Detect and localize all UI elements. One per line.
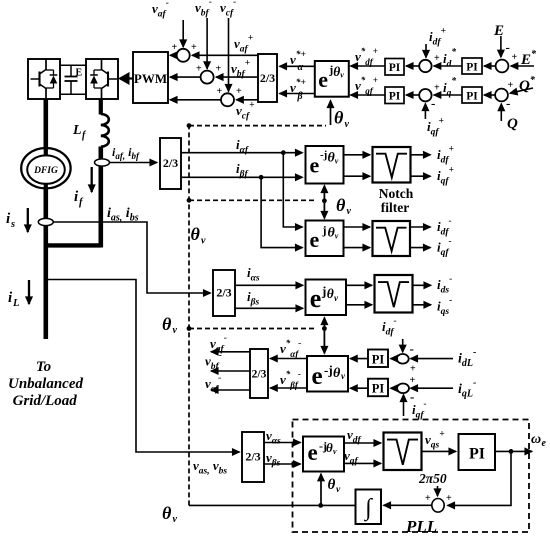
svg-text:α: α: [298, 62, 304, 73]
svg-text:-j: -j: [320, 149, 327, 161]
svg-text:+: +: [196, 64, 202, 75]
svg-text:Q: Q: [507, 116, 518, 132]
svg-text:L: L: [72, 123, 82, 138]
svg-text:v: v: [335, 156, 339, 165]
svg-text:e: e: [308, 440, 318, 465]
svg-text:v: v: [333, 447, 337, 456]
svg-text:v: v: [340, 71, 344, 80]
svg-text:v: v: [173, 325, 178, 336]
svg-text:+: +: [236, 86, 242, 97]
svg-text:+: +: [512, 52, 518, 63]
svg-text:s: s: [10, 219, 15, 230]
svg-text:-: -: [506, 96, 510, 111]
svg-text:2/3: 2/3: [252, 369, 267, 381]
svg-text:PLL: PLL: [405, 517, 437, 536]
svg-text:j: j: [322, 223, 327, 237]
svg-text:+: +: [410, 364, 416, 375]
svg-text:+: +: [410, 375, 416, 386]
svg-text:θ: θ: [162, 314, 172, 334]
svg-text:2/3: 2/3: [163, 156, 178, 170]
svg-text:θ: θ: [327, 286, 334, 301]
svg-text:-: -: [410, 341, 414, 356]
svg-text:+: +: [446, 493, 452, 504]
svg-text:∫: ∫: [363, 495, 373, 522]
svg-text:Notch: Notch: [379, 186, 414, 201]
svg-text:DFIG: DFIG: [33, 166, 58, 176]
svg-text:To: To: [36, 359, 51, 375]
svg-text:θ: θ: [328, 477, 336, 493]
svg-text:PWM: PWM: [134, 71, 167, 86]
svg-text:PI: PI: [389, 62, 401, 74]
svg-text:+: +: [191, 42, 197, 53]
svg-text:e: e: [310, 227, 320, 252]
svg-text:j: j: [321, 284, 326, 299]
svg-text:θ: θ: [333, 64, 340, 79]
svg-text:-j: -j: [324, 363, 333, 378]
svg-text:+: +: [425, 493, 431, 504]
svg-text:PI: PI: [372, 353, 385, 367]
svg-text:L: L: [12, 298, 19, 309]
svg-text:e: e: [310, 152, 320, 177]
svg-text:2/3: 2/3: [245, 450, 260, 464]
svg-text:-: -: [431, 96, 435, 111]
svg-text:PI: PI: [389, 91, 401, 103]
svg-text:2/3: 2/3: [216, 286, 231, 300]
svg-text:2/3: 2/3: [260, 71, 275, 85]
svg-text:β: β: [297, 91, 304, 102]
svg-text:v: v: [347, 206, 352, 217]
svg-text:E: E: [493, 23, 504, 39]
svg-text:2π50: 2π50: [418, 471, 447, 486]
svg-text:e: e: [542, 438, 547, 449]
svg-text:e: e: [312, 363, 323, 390]
svg-text:e: e: [310, 284, 322, 313]
svg-text:+: +: [172, 42, 178, 53]
svg-text:θ: θ: [334, 108, 344, 128]
svg-text:PI: PI: [372, 382, 385, 396]
svg-text:Unbalanced: Unbalanced: [8, 376, 84, 392]
svg-text:+: +: [216, 64, 222, 75]
svg-text:θ: θ: [162, 503, 172, 523]
svg-text:PI: PI: [466, 91, 478, 103]
svg-text:e: e: [318, 67, 328, 92]
svg-text:PI: PI: [469, 446, 485, 463]
svg-text:v: v: [345, 119, 350, 130]
svg-text:v: v: [335, 231, 339, 240]
svg-text:E: E: [76, 68, 83, 79]
svg-text:PI: PI: [466, 62, 478, 74]
svg-text:Grid/Load: Grid/Load: [13, 393, 78, 409]
svg-text:filter: filter: [381, 200, 409, 215]
svg-text:+: +: [217, 86, 223, 97]
svg-text:v: v: [173, 514, 178, 525]
svg-text:-: -: [506, 40, 510, 55]
svg-text:+: +: [508, 80, 514, 91]
svg-text:θ: θ: [326, 440, 333, 455]
svg-text:+: +: [434, 83, 440, 94]
svg-text:θ: θ: [333, 366, 341, 381]
svg-text:v: v: [201, 236, 206, 247]
svg-text:+: +: [434, 53, 440, 64]
svg-text:θ: θ: [336, 195, 346, 215]
svg-text:ω: ω: [531, 432, 541, 447]
svg-text:θ: θ: [191, 224, 201, 244]
